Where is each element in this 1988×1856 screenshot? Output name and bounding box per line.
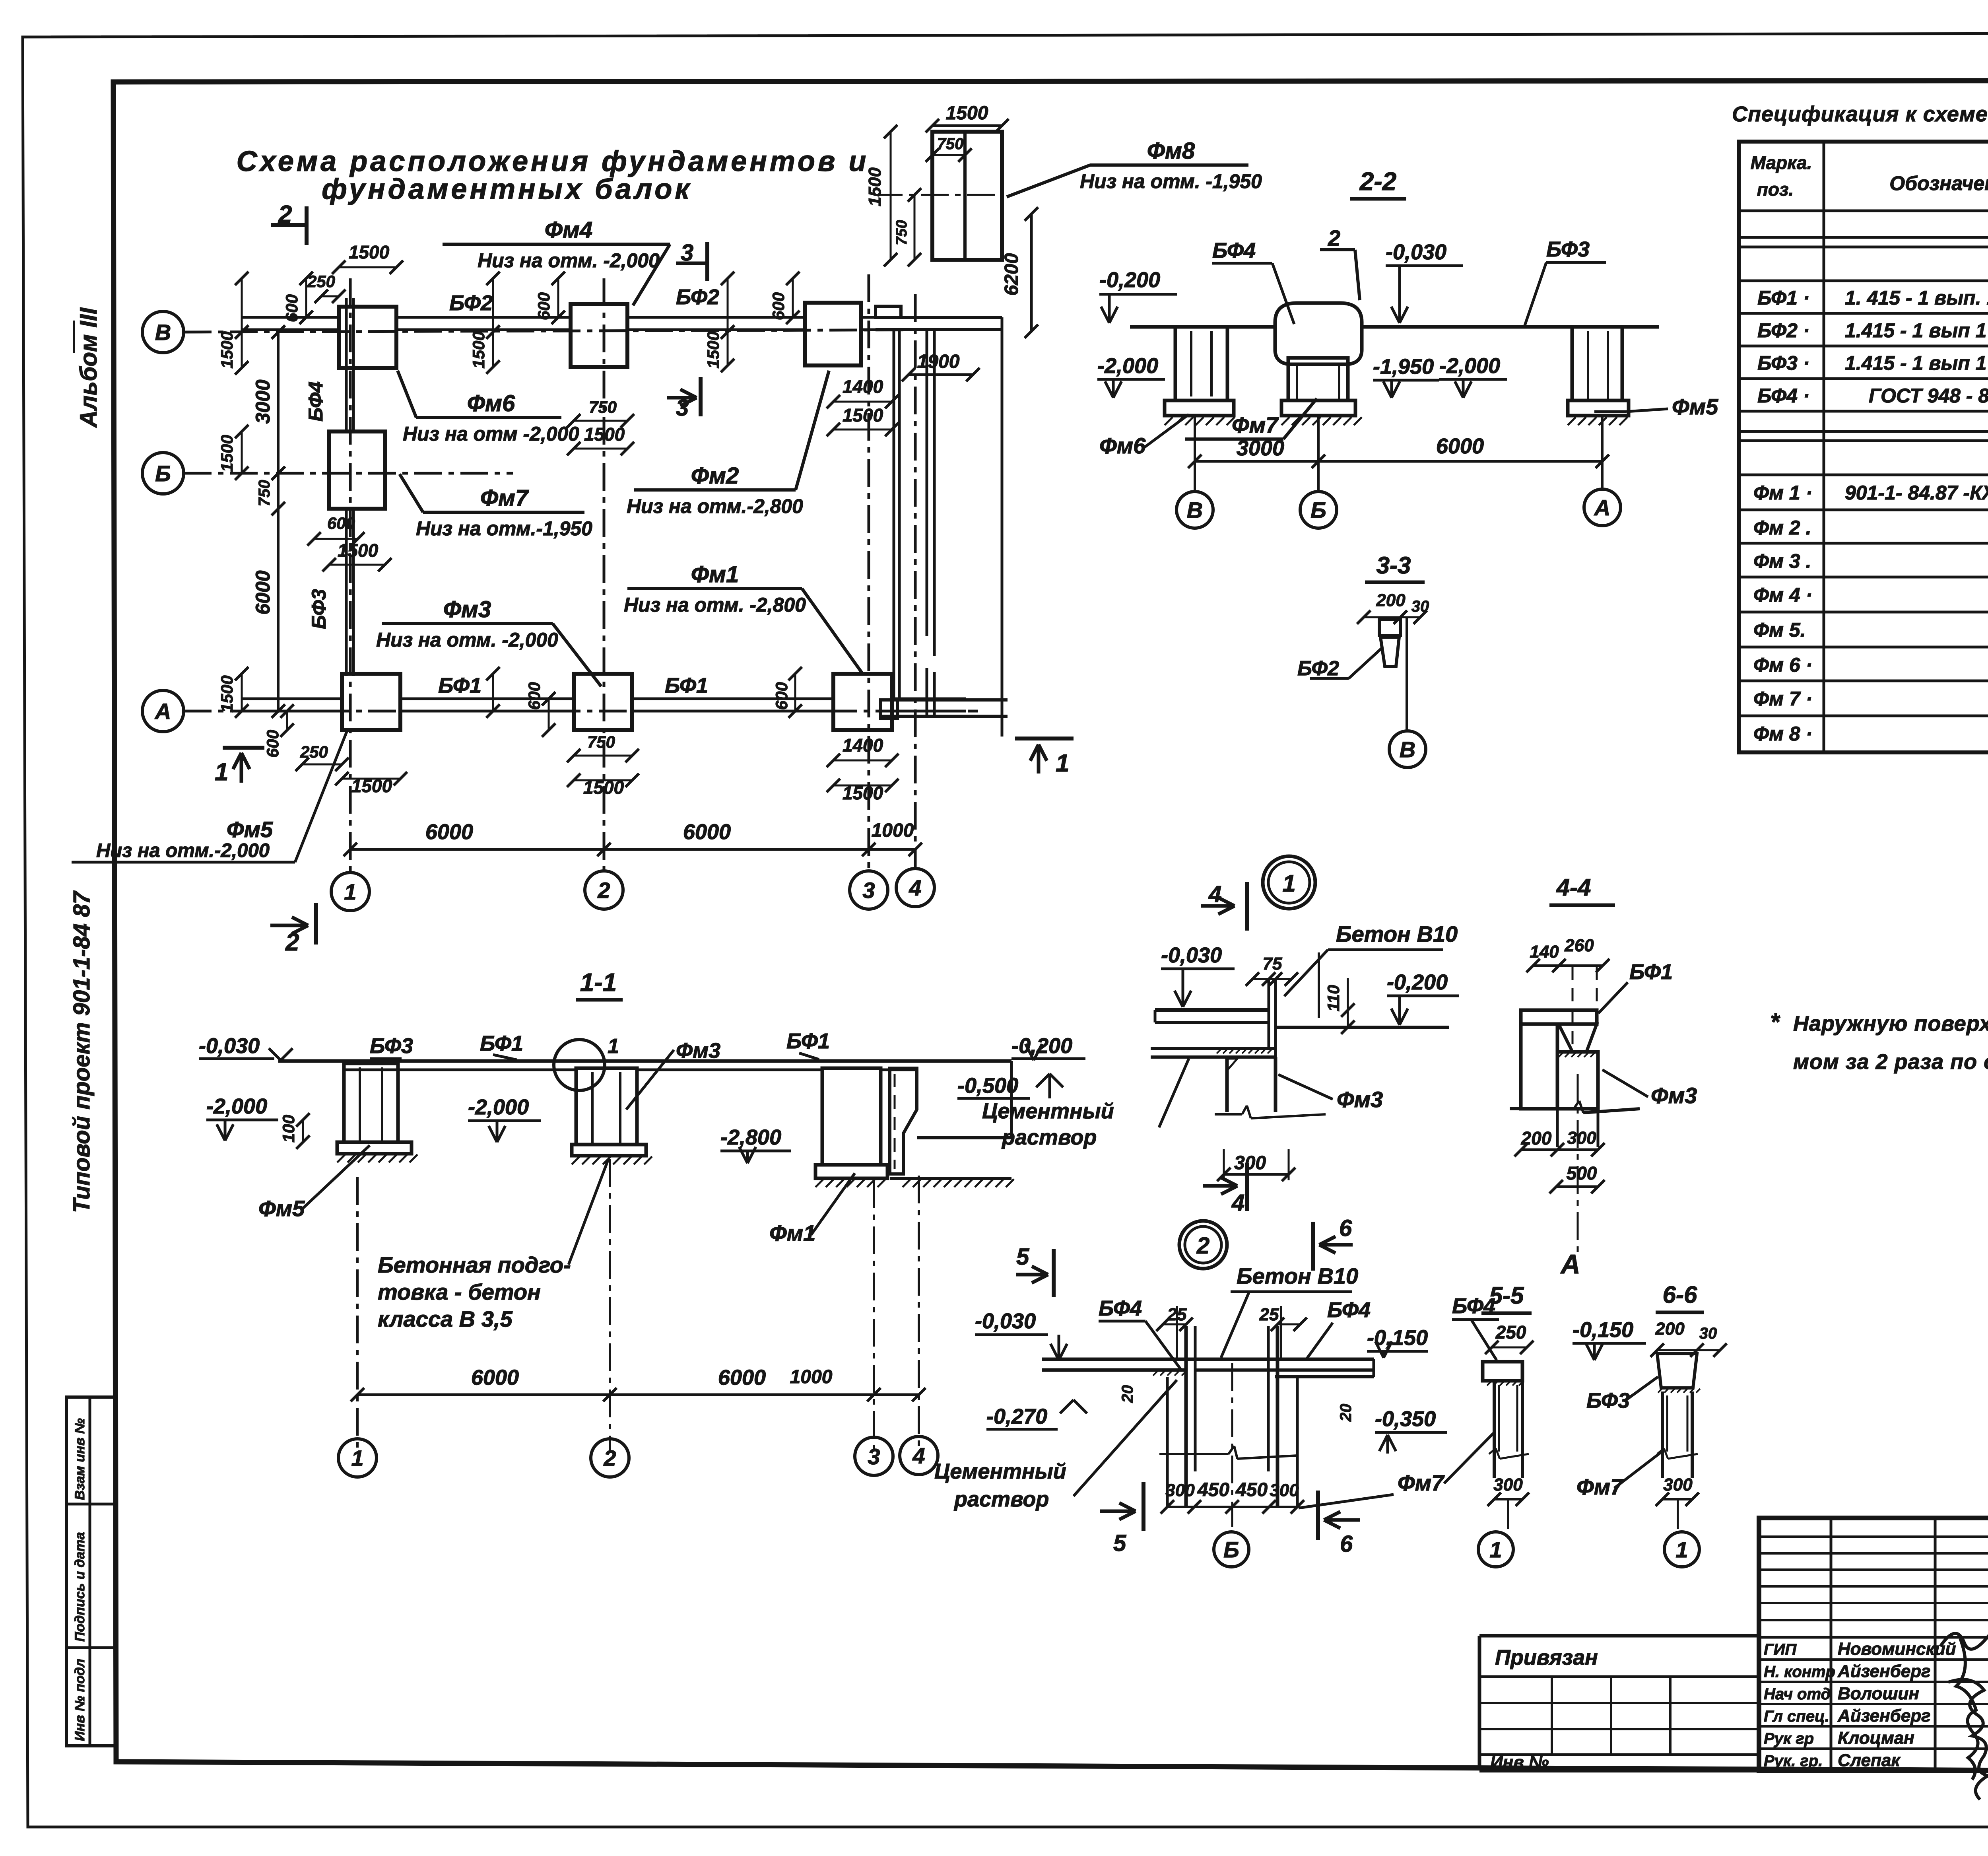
svg-text:Волошин: Волошин: [1838, 1684, 1919, 1703]
svg-text:БФ1: БФ1: [438, 674, 481, 698]
svg-text:300: 300: [1270, 1481, 1299, 1500]
svg-text:Фм 6 ·: Фм 6 ·: [1753, 654, 1812, 676]
svg-text:-0,200: -0,200: [1387, 970, 1448, 994]
svg-text:1: 1: [344, 879, 356, 904]
svg-text:6000: 6000: [425, 820, 473, 844]
svg-text:-2,800: -2,800: [720, 1125, 781, 1149]
svg-text:750: 750: [256, 480, 273, 507]
svg-text:300: 300: [1165, 1481, 1195, 1500]
svg-text:Бетон В10: Бетон В10: [1336, 921, 1458, 946]
svg-text:Бетонная подго-: Бетонная подго-: [378, 1252, 571, 1277]
svg-text:-0,350: -0,350: [1375, 1407, 1436, 1431]
svg-text:1. 415 - 1 вып. 1 л .19.: 1. 415 - 1 вып. 1 л .19.: [1845, 287, 1988, 309]
svg-text:Фм 3 .: Фм 3 .: [1753, 550, 1811, 572]
svg-text:300: 300: [1234, 1152, 1266, 1174]
svg-text:Б: Б: [155, 461, 171, 486]
svg-text:класса В 3,5: класса В 3,5: [378, 1306, 513, 1331]
svg-text:БФ3: БФ3: [1586, 1389, 1630, 1413]
svg-text:Цементный: Цементный: [934, 1460, 1066, 1483]
svg-text:Фм4: Фм4: [545, 217, 592, 243]
svg-text:75: 75: [1263, 954, 1282, 974]
svg-text:БФ2: БФ2: [449, 291, 493, 315]
svg-text:600: 600: [772, 682, 791, 710]
svg-text:Фм3: Фм3: [676, 1039, 720, 1063]
svg-text:Фм3: Фм3: [1651, 1083, 1697, 1108]
svg-text:5: 5: [1113, 1530, 1126, 1556]
svg-text:БФ3: БФ3: [1546, 237, 1590, 261]
svg-text:200: 200: [1376, 591, 1406, 610]
svg-text:4: 4: [912, 1443, 925, 1468]
svg-text:140: 140: [1530, 942, 1559, 962]
svg-text:1500: 1500: [351, 775, 392, 796]
svg-text:2: 2: [603, 1446, 616, 1471]
svg-text:1500: 1500: [843, 783, 883, 803]
svg-text:Низ на отм. -1,950: Низ на отм. -1,950: [1080, 170, 1262, 192]
svg-text:250: 250: [1495, 1322, 1526, 1343]
svg-text:раствор: раствор: [1001, 1125, 1097, 1149]
svg-text:1-1: 1-1: [580, 968, 617, 997]
svg-text:1: 1: [351, 1446, 363, 1471]
svg-text:3000: 3000: [252, 379, 274, 424]
svg-text:*: *: [1770, 1009, 1780, 1035]
svg-text:А: А: [1560, 1249, 1580, 1279]
svg-text:раствор: раствор: [953, 1487, 1049, 1511]
svg-text:1400: 1400: [843, 376, 883, 397]
svg-text:6000: 6000: [718, 1366, 766, 1390]
svg-text:Низ на отм. -2,000: Низ на отм. -2,000: [478, 249, 660, 272]
svg-text:30: 30: [1699, 1325, 1717, 1342]
svg-text:Обозначение: Обозначение: [1889, 172, 1988, 194]
svg-text:1: 1: [1675, 1537, 1688, 1562]
svg-text:Фм5: Фм5: [258, 1196, 305, 1221]
svg-text:Фм6: Фм6: [1099, 433, 1146, 458]
svg-text:1000: 1000: [872, 820, 914, 841]
svg-text:Спецификация к схеме распол: Спецификация к схеме расположения фундам…: [1732, 102, 1988, 126]
svg-text:6200: 6200: [1001, 253, 1022, 295]
svg-text:600: 600: [263, 730, 282, 758]
svg-text:-0,030: -0,030: [1386, 240, 1446, 264]
svg-text:-0,500: -0,500: [957, 1074, 1018, 1098]
svg-text:750: 750: [893, 220, 910, 245]
svg-text:901-1- 84.87 -КЖ7: 901-1- 84.87 -КЖ7: [1845, 482, 1988, 504]
svg-text:1500: 1500: [583, 777, 624, 798]
svg-text:6000: 6000: [471, 1366, 519, 1390]
svg-text:750: 750: [589, 398, 617, 416]
svg-text:Фм 2 .: Фм 2 .: [1753, 517, 1811, 539]
svg-text:ГИП: ГИП: [1764, 1641, 1797, 1658]
svg-text:25: 25: [1259, 1305, 1279, 1324]
svg-text:6-6: 6-6: [1663, 1281, 1697, 1308]
svg-text:В: В: [155, 320, 171, 345]
svg-text:Низ на отм. -2,800: Низ на отм. -2,800: [624, 594, 806, 616]
svg-text:6: 6: [1339, 1215, 1352, 1241]
svg-text:БФ2: БФ2: [676, 285, 719, 309]
svg-text:Инв № подл: Инв № подл: [72, 1659, 87, 1741]
svg-text:Фм1: Фм1: [769, 1220, 815, 1246]
svg-text:4: 4: [1231, 1190, 1244, 1216]
svg-text:БФ4 ·: БФ4 ·: [1757, 385, 1810, 407]
svg-text:Фм7: Фм7: [1398, 1470, 1445, 1495]
svg-text:3000: 3000: [1237, 436, 1284, 460]
svg-text:БФ4: БФ4: [1212, 239, 1256, 262]
svg-text:2: 2: [1196, 1233, 1209, 1259]
svg-text:Привязан: Привязан: [1495, 1646, 1598, 1669]
svg-text:БФ3: БФ3: [308, 589, 330, 629]
svg-text:Рук гр: Рук гр: [1764, 1730, 1814, 1747]
svg-text:100: 100: [279, 1115, 298, 1143]
svg-text:Марка.: Марка.: [1751, 152, 1812, 173]
svg-text:3-3: 3-3: [1376, 552, 1411, 579]
svg-text:-1,950: -1,950: [1373, 355, 1434, 379]
svg-text:А: А: [1594, 495, 1610, 520]
svg-text:-2,000: -2,000: [1439, 354, 1500, 378]
svg-text:200: 200: [1655, 1319, 1685, 1339]
svg-text:1000: 1000: [790, 1366, 833, 1388]
svg-text:1500: 1500: [946, 103, 988, 124]
svg-text:Низ на отм -2,000: Низ на отм -2,000: [403, 423, 579, 445]
svg-text:Взам инв №: Взам инв №: [72, 1418, 87, 1500]
svg-text:600: 600: [769, 292, 788, 320]
svg-text:фундаментных балок: фундаментных балок: [322, 173, 692, 205]
svg-text:-0,150: -0,150: [1367, 1326, 1428, 1350]
svg-text:300: 300: [1567, 1128, 1596, 1148]
svg-text:поз.: поз.: [1757, 179, 1794, 200]
svg-text:Б: Б: [1223, 1537, 1239, 1562]
svg-text:450: 450: [1235, 1479, 1268, 1500]
svg-text:1500: 1500: [338, 540, 379, 561]
svg-text:110: 110: [1324, 985, 1343, 1012]
svg-text:1: 1: [1489, 1537, 1502, 1562]
svg-text:Типовой проект 901-1-84 87: Типовой проект 901-1-84 87: [69, 890, 95, 1213]
svg-text:БФ3: БФ3: [370, 1034, 413, 1058]
svg-text:Низ на отм.-2,800: Низ на отм.-2,800: [627, 495, 803, 517]
svg-text:Фм 1 ·: Фм 1 ·: [1753, 482, 1812, 504]
svg-text:250: 250: [300, 742, 328, 761]
svg-text:500: 500: [1567, 1163, 1597, 1184]
svg-text:1: 1: [1056, 750, 1069, 777]
svg-text:Цементный: Цементный: [982, 1099, 1114, 1123]
svg-text:4-4: 4-4: [1556, 874, 1591, 901]
svg-text:1500: 1500: [349, 242, 390, 262]
svg-text:А: А: [154, 699, 171, 724]
svg-text:300: 300: [1493, 1475, 1523, 1495]
svg-text:Фм2: Фм2: [691, 463, 739, 489]
svg-text:1.415 - 1 вып 1 л. 48.: 1.415 - 1 вып 1 л. 48.: [1845, 319, 1988, 342]
svg-text:1500: 1500: [843, 405, 883, 426]
svg-text:1400: 1400: [843, 735, 883, 756]
svg-text:Гл спец.: Гл спец.: [1764, 1708, 1829, 1725]
svg-text:Низ на отм. -2,000: Низ на отм. -2,000: [376, 629, 558, 651]
svg-text:1500: 1500: [217, 331, 236, 368]
svg-text:4: 4: [909, 875, 921, 900]
svg-text:Альбом III: Альбом III: [75, 307, 102, 428]
svg-text:1500: 1500: [865, 167, 885, 206]
svg-text:Фм 4 ·: Фм 4 ·: [1753, 584, 1812, 606]
svg-text:ГОСТ 948 - 84: ГОСТ 948 - 84: [1869, 385, 1988, 407]
svg-text:Нач отд: Нач отд: [1764, 1685, 1831, 1703]
svg-text:-0,030: -0,030: [975, 1309, 1036, 1333]
svg-text:Наружную поверхность фундаме: Наружную поверхность фундаментав обмазат…: [1793, 1012, 1988, 1036]
svg-text:В: В: [1400, 737, 1415, 762]
svg-text:мом за 2 раза по огрунтов: мом за 2 раза по огрунтовке раствором би…: [1793, 1050, 1988, 1074]
svg-text:600: 600: [525, 682, 544, 710]
svg-text:1500: 1500: [469, 331, 488, 368]
svg-text:В: В: [1187, 498, 1203, 523]
svg-text:-0,270: -0,270: [986, 1405, 1047, 1428]
svg-text:-0,030: -0,030: [199, 1034, 260, 1058]
svg-text:Айзенберг: Айзенберг: [1837, 1706, 1931, 1726]
svg-text:Фм7: Фм7: [480, 485, 529, 511]
svg-text:Фм1: Фм1: [691, 562, 739, 587]
svg-text:Новоминский: Новоминский: [1838, 1639, 1956, 1659]
svg-text:-0,030: -0,030: [1161, 943, 1222, 967]
svg-text:20: 20: [1119, 1385, 1136, 1403]
svg-text:6000: 6000: [1436, 434, 1484, 458]
svg-text:3: 3: [862, 878, 875, 903]
svg-text:Слепак: Слепак: [1838, 1751, 1901, 1770]
svg-text:2: 2: [1328, 225, 1340, 251]
svg-text:Б: Б: [1310, 498, 1326, 523]
svg-text:Фм5: Фм5: [1672, 394, 1718, 419]
svg-text:Фм 7 ·: Фм 7 ·: [1753, 688, 1812, 710]
svg-text:Н. контр: Н. контр: [1764, 1663, 1835, 1681]
svg-text:1: 1: [608, 1035, 619, 1058]
svg-text:Подпись и дата: Подпись и дата: [72, 1532, 87, 1642]
svg-text:600: 600: [327, 514, 355, 533]
svg-text:1: 1: [1282, 870, 1295, 897]
svg-text:БФ1: БФ1: [1629, 960, 1673, 984]
svg-text:-2,000: -2,000: [1097, 354, 1158, 378]
svg-text:6000: 6000: [252, 570, 274, 614]
svg-text:6000: 6000: [683, 820, 731, 844]
svg-text:Фм5: Фм5: [227, 817, 273, 842]
svg-text:1500: 1500: [584, 424, 625, 445]
svg-text:450: 450: [1197, 1479, 1229, 1500]
svg-text:Бетон В10: Бетон В10: [1237, 1263, 1358, 1289]
svg-text:-2,000: -2,000: [206, 1094, 267, 1118]
svg-text:товка - бетон: товка - бетон: [378, 1279, 541, 1304]
svg-text:БФ2: БФ2: [1297, 657, 1339, 680]
svg-text:Фм3: Фм3: [443, 597, 491, 622]
svg-text:БФ1 ·: БФ1 ·: [1757, 287, 1810, 309]
svg-text:4: 4: [1208, 881, 1221, 907]
svg-text:600: 600: [282, 294, 301, 322]
svg-text:БФ4: БФ4: [1327, 1298, 1371, 1322]
svg-text:Клоцман: Клоцман: [1838, 1728, 1914, 1748]
svg-text:2-2: 2-2: [1359, 167, 1397, 196]
svg-text:3: 3: [868, 1444, 880, 1469]
svg-text:260: 260: [1564, 936, 1594, 955]
svg-text:1900: 1900: [917, 351, 960, 372]
svg-text:1.415 - 1 вып 1 л. 45.: 1.415 - 1 вып 1 л. 45.: [1845, 352, 1988, 374]
svg-text:Рук. гр.: Рук. гр.: [1764, 1752, 1823, 1770]
svg-text:750: 750: [937, 135, 964, 153]
svg-text:Фм8: Фм8: [1147, 138, 1195, 164]
svg-text:300: 300: [1663, 1475, 1693, 1495]
svg-text:1500: 1500: [217, 675, 236, 712]
svg-text:БФ4: БФ4: [1099, 1296, 1142, 1320]
svg-text:БФ1: БФ1: [665, 674, 708, 698]
svg-text:БФ3 ·: БФ3 ·: [1757, 352, 1810, 374]
svg-text:750: 750: [587, 733, 615, 751]
svg-text:Схема расположения фундамент: Схема расположения фундаментов и: [237, 146, 869, 177]
svg-text:5: 5: [1016, 1244, 1029, 1270]
svg-text:2: 2: [597, 878, 610, 903]
svg-text:Инв №: Инв №: [1490, 1753, 1549, 1772]
svg-text:1: 1: [215, 758, 228, 786]
svg-text:-2,000: -2,000: [468, 1095, 529, 1119]
svg-text:Фм 5.: Фм 5.: [1753, 619, 1806, 641]
svg-text:600: 600: [534, 292, 553, 320]
svg-text:БФ4: БФ4: [305, 381, 327, 422]
svg-text:1500: 1500: [217, 435, 236, 472]
svg-text:Фм 8 ·: Фм 8 ·: [1753, 723, 1812, 745]
svg-text:-0,150: -0,150: [1573, 1318, 1633, 1342]
svg-text:Низ на отм.-2,000: Низ на отм.-2,000: [96, 840, 270, 861]
svg-text:БФ2 ·: БФ2 ·: [1757, 319, 1810, 342]
svg-text:5-5: 5-5: [1489, 1282, 1524, 1309]
svg-text:Айзенберг: Айзенберг: [1837, 1662, 1931, 1681]
svg-text:Фм7: Фм7: [1232, 412, 1279, 437]
svg-text:Фм6: Фм6: [467, 391, 515, 416]
svg-text:6: 6: [1340, 1531, 1353, 1557]
svg-text:1500: 1500: [704, 331, 722, 368]
svg-text:20: 20: [1337, 1404, 1355, 1422]
svg-text:-0,200: -0,200: [1099, 268, 1160, 292]
svg-text:Фм3: Фм3: [1337, 1087, 1383, 1112]
svg-text:БФ1: БФ1: [786, 1029, 830, 1053]
svg-text:БФ1: БФ1: [480, 1032, 523, 1055]
svg-text:Низ на отм.-1,950: Низ на отм.-1,950: [416, 517, 592, 540]
